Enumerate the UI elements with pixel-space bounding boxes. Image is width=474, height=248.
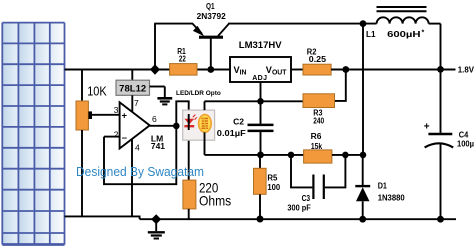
- svg-text:0.25: 0.25: [309, 55, 327, 64]
- node: dot C2 bottom: [257, 152, 264, 159]
- wire: switch node vertical: [362, 24, 364, 155]
- svg-text:100µ: 100µ: [457, 140, 474, 149]
- svg-text:600µH: 600µH: [387, 30, 421, 39]
- diode D1 1N3880: [355, 155, 370, 219]
- svg-text:LM317HV: LM317HV: [239, 40, 283, 50]
- wire: R6 right to switch vertical: [332, 154, 363, 156]
- wire: R3 right jog: [335, 70, 346, 101]
- svg-text:R6: R6: [311, 132, 322, 141]
- node: pin6 feedback dot: [173, 123, 180, 130]
- inductor core bars: [377, 6, 427, 8]
- svg-text:741: 741: [151, 142, 166, 151]
- node: diamond junction left: [150, 64, 160, 74]
- svg-text:15k: 15k: [311, 142, 323, 151]
- wire: bottom rail left: [65, 215, 141, 217]
- wire: Vout to R2: [291, 69, 303, 71]
- svg-text:0.01µF: 0.01µF: [217, 129, 246, 138]
- svg-text:+: +: [424, 121, 430, 132]
- LED inside opto: [184, 114, 196, 130]
- resistor 220 Ohms: [183, 180, 196, 209]
- resistor R5: [254, 168, 267, 194]
- svg-text:Ohms: Ohms: [199, 193, 231, 208]
- capacitor C3: [291, 155, 345, 199]
- svg-text:4: 4: [135, 143, 140, 153]
- potentiometer 10K: [76, 70, 92, 217]
- wire: R5 top lead: [259, 155, 261, 168]
- svg-text:300 pF: 300 pF: [287, 204, 310, 213]
- wire: bottom rail right: [140, 218, 456, 220]
- svg-text:2N3792: 2N3792: [197, 12, 227, 21]
- ground: 78L12 ground: [150, 87, 173, 105]
- node: output dot: [437, 66, 444, 73]
- regulator 78L12: [116, 70, 150, 113]
- svg-text:C2: C2: [233, 118, 244, 127]
- op-amp U1 LM741: [91, 102, 150, 148]
- node: C4 rail dot: [437, 216, 444, 223]
- node: dot switch line: [360, 152, 367, 159]
- svg-text:D1: D1: [378, 182, 388, 191]
- svg-text:1.8V: 1.8V: [458, 65, 474, 74]
- svg-text:7: 7: [134, 98, 139, 108]
- wire: right drop to output node: [440, 24, 442, 70]
- wire: panel plus to main rail: [65, 69, 170, 71]
- solar panel PV1: [2, 23, 64, 245]
- svg-text:ADJ: ADJ: [252, 75, 267, 82]
- resistor R1: [170, 64, 197, 76]
- svg-text:Q1: Q1: [206, 2, 215, 11]
- wire: LDR to R6 line: [205, 154, 304, 156]
- wire: pin6 output: [150, 125, 177, 127]
- wire: L1 to right corner: [429, 23, 441, 25]
- ground: main ground: [148, 219, 165, 238]
- svg-text:–: –: [122, 132, 127, 143]
- wire: ADJ line: [260, 82, 262, 124]
- svg-text:2: 2: [114, 130, 119, 140]
- capacitor C2: [248, 125, 274, 131]
- wire: feedback pin2 loop: [104, 126, 176, 184]
- LDR inside opto: [199, 115, 212, 133]
- regulator LM317HV: [230, 57, 291, 82]
- node: switch node dot: [360, 20, 367, 27]
- svg-text:1N3880: 1N3880: [378, 193, 406, 202]
- svg-text:LED/LDR Opto: LED/LDR Opto: [176, 90, 221, 97]
- capacitor C4: [425, 69, 454, 219]
- svg-text:6: 6: [152, 114, 157, 124]
- node: ADJ dot: [257, 98, 264, 105]
- node: base node dot: [207, 66, 214, 73]
- node: dot C3 branch: [288, 152, 295, 159]
- wire: R5 bottom lead: [259, 194, 261, 219]
- wire: collector to L1 node: [228, 23, 377, 25]
- wire: C2 down to lower line: [260, 131, 262, 155]
- node: R2 R3 dot: [342, 66, 349, 73]
- svg-text:+: +: [122, 111, 128, 122]
- svg-text:L1: L1: [366, 30, 376, 39]
- resistor R3: [303, 94, 335, 108]
- svg-text:C3: C3: [302, 194, 311, 203]
- svg-text:78L12: 78L12: [119, 84, 146, 95]
- wire: LDR vertical: [204, 101, 206, 110]
- wire: 220 to rail: [188, 209, 190, 219]
- svg-text:Designed By Swagatam: Designed By Swagatam: [76, 164, 204, 179]
- svg-text:3: 3: [114, 105, 119, 115]
- transistor Q1 2N3792: [193, 24, 230, 70]
- wire: R1 to LM317 Vin: [197, 69, 230, 71]
- wire: top emitter wire: [154, 23, 193, 25]
- svg-text:*: *: [422, 30, 425, 37]
- wire: LED feed up-over: [176, 101, 188, 180]
- node: ground diamond: [151, 214, 161, 224]
- svg-text:10K: 10K: [87, 84, 107, 99]
- resistor R6: [304, 150, 332, 163]
- svg-text:R5: R5: [267, 173, 278, 182]
- node: R5 rail dot: [257, 216, 264, 223]
- svg-text:100: 100: [267, 183, 280, 192]
- node: dot R6 right: [342, 152, 349, 159]
- resistor R2: [303, 64, 331, 75]
- inductor L1: [377, 17, 429, 23]
- svg-text:C4: C4: [459, 130, 469, 139]
- svg-text:22: 22: [179, 55, 186, 64]
- wire: rail jog: [139, 216, 141, 219]
- node: D1 rail dot: [359, 216, 366, 223]
- wire: left riser to top: [154, 24, 156, 70]
- wire: R2 to output node: [331, 69, 455, 71]
- optocoupler LED/LDR box: [183, 110, 215, 140]
- wire: pin4 to rail: [131, 139, 133, 217]
- wire: ADJ to R3: [205, 100, 304, 102]
- svg-text:240: 240: [313, 116, 324, 125]
